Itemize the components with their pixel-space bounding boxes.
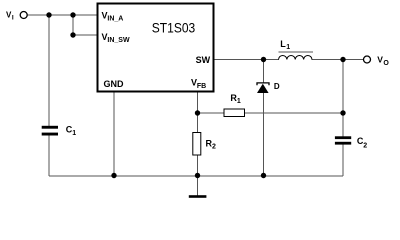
svg-text:ST1S03: ST1S03 [152, 21, 195, 37]
svg-text:2: 2 [363, 142, 367, 149]
svg-text:1: 1 [286, 44, 290, 51]
svg-text:O: O [383, 60, 389, 67]
svg-text:1: 1 [72, 130, 76, 137]
svg-text:IN_A: IN_A [107, 16, 123, 23]
svg-text:FB: FB [197, 83, 206, 90]
svg-text:GND: GND [104, 79, 125, 89]
svg-text:1: 1 [237, 98, 241, 105]
svg-text:I: I [12, 15, 14, 22]
svg-text:L: L [280, 39, 286, 49]
svg-text:2: 2 [212, 144, 216, 151]
svg-text:SW: SW [196, 55, 211, 65]
svg-text:V: V [377, 55, 383, 65]
svg-text:IN_SW: IN_SW [107, 37, 130, 44]
svg-text:D: D [274, 82, 280, 91]
